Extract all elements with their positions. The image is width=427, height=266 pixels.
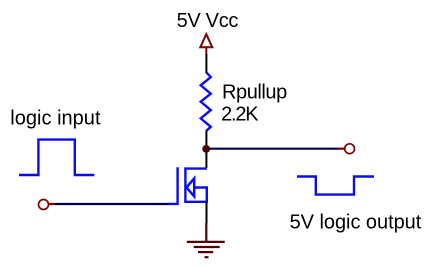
svg-text:Rpullup: Rpullup — [222, 82, 287, 104]
output pulse waveform — [297, 177, 374, 195]
transistor Q1 MOSFET — [168, 167, 207, 204]
wire node to output terminal — [210, 148, 339, 150]
input terminal circle — [39, 200, 49, 210]
gate plate and lead — [168, 167, 177, 204]
svg-text:logic input: logic input — [10, 107, 101, 129]
svg-text:5V logic output: 5V logic output — [290, 211, 422, 233]
wire resistor to drain — [205, 130, 207, 168]
svg-text:5V Vcc: 5V Vcc — [177, 10, 239, 32]
input terminal pin stub — [49, 203, 56, 205]
drain stub — [185, 167, 206, 169]
body arrow — [187, 178, 195, 196]
ground — [187, 223, 225, 257]
wire Vcc to resistor — [205, 54, 207, 73]
input pulse waveform — [19, 140, 94, 175]
power symbol Vcc — [200, 34, 212, 54]
node junction dot — [202, 145, 210, 153]
output terminal pin stub — [338, 148, 345, 150]
svg-text:2.2K: 2.2K — [221, 104, 259, 126]
channel bar — [184, 167, 186, 203]
body stub with source connection — [185, 188, 206, 202]
wire input terminal to gate — [56, 203, 169, 205]
resistor Rpullup — [201, 73, 211, 131]
wire source to ground — [206, 202, 208, 224]
output terminal circle — [345, 144, 355, 154]
